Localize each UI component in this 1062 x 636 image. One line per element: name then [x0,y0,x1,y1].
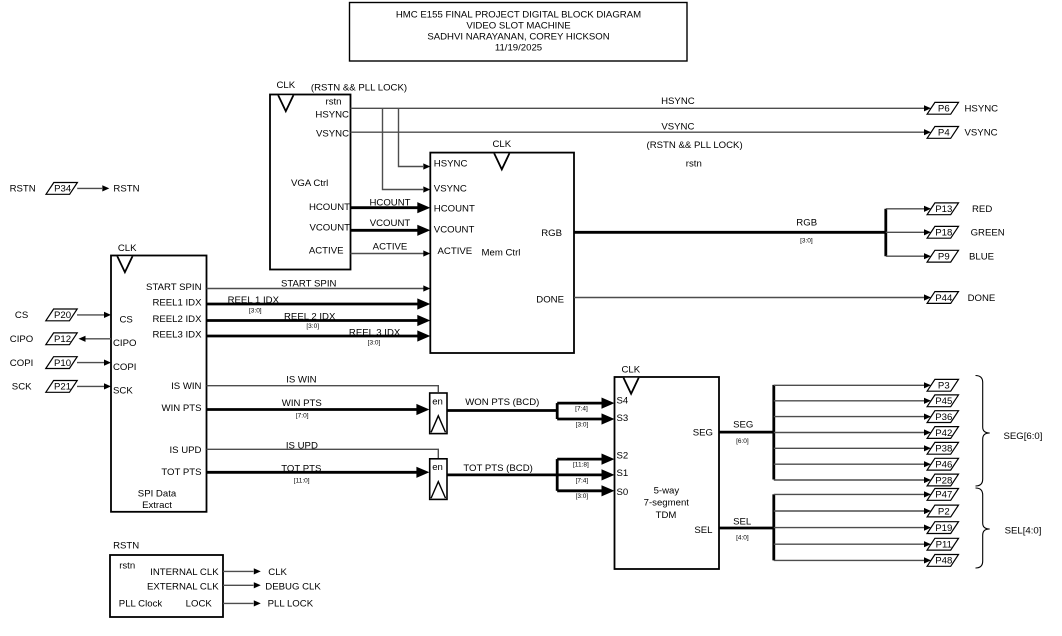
svg-text:en: en [432,396,443,407]
clock wedge VGA Ctrl [278,95,293,111]
block Mem Ctrl [430,153,574,353]
svg-text:SEL: SEL [694,525,713,536]
svg-text:S2: S2 [617,451,629,462]
svg-text:[3:0]: [3:0] [249,307,262,314]
svg-text:PLL LOCK: PLL LOCK [268,599,314,610]
output port P28 [927,474,958,486]
svg-text:P21: P21 [54,382,71,393]
wire SEL bit to P19 [774,527,924,529]
svg-text:P42: P42 [935,428,952,439]
svg-text:CIPO: CIPO [10,334,33,345]
svg-text:[6:0]: [6:0] [736,438,749,445]
svg-text:SEG: SEG [693,427,713,438]
svg-text:SEL: SEL [733,517,752,528]
svg-text:DONE: DONE [536,294,564,305]
brace SEG[6:0] [976,376,990,487]
svg-text:RSTN: RSTN [113,541,139,552]
bus slice [3:0] to S0 [557,489,601,492]
svg-text:VCOUNT: VCOUNT [309,222,350,233]
bus SEG [719,431,774,434]
svg-text:RGB: RGB [796,217,817,228]
output port P13 [927,203,958,215]
clock wedge SPI Data Extract [117,256,132,272]
output port P46 [927,458,958,470]
wire SEG bit to P38 [774,447,924,449]
svg-text:WIN PTS: WIN PTS [162,403,202,414]
bus WIN PTS to en1 [207,408,418,411]
svg-text:SCK: SCK [113,386,133,397]
output port P9 [927,250,958,262]
output port P2 [927,505,958,517]
svg-text:VSYNC: VSYNC [434,183,467,194]
svg-text:HCOUNT: HCOUNT [369,198,410,209]
svg-text:P48: P48 [935,556,952,567]
bus TOT PTS (BCD) [447,473,557,476]
splitter bar TOT PTS [556,459,559,491]
bus slice [11:8] to S2 [557,458,601,461]
svg-text:[3:0]: [3:0] [800,238,813,245]
wire SCK [77,385,104,387]
svg-text:TDM: TDM [656,510,677,521]
svg-text:RGB: RGB [541,228,562,239]
svg-text:RSTN: RSTN [10,184,36,195]
bus TOT PTS to en2 [207,471,418,474]
block SPI Data Extract [111,256,207,512]
wire SEG bit to P42 [774,432,924,434]
svg-text:HSYNC: HSYNC [434,158,468,169]
svg-text:REEL2 IDX: REEL2 IDX [152,314,202,325]
svg-text:START SPIN: START SPIN [146,282,202,293]
bus REEL 2 IDX [207,319,419,322]
svg-text:[3:0]: [3:0] [306,323,319,330]
wire SEG bit to P28 [774,479,924,481]
wire SEG bit to P3 [774,384,924,386]
svg-text:Mem Ctrl: Mem Ctrl [482,247,521,258]
svg-text:CLK: CLK [621,364,640,375]
wire CS [77,314,104,316]
svg-text:P6: P6 [938,104,950,115]
wire BLUE [886,255,924,257]
clock wedge Mem Ctrl [494,153,509,169]
svg-text:P20: P20 [54,310,71,321]
svg-text:SPI Data: SPI Data [138,488,177,499]
svg-text:HMC E155 FINAL PROJECT DIGITAL: HMC E155 FINAL PROJECT DIGITAL BLOCK DIA… [396,9,641,20]
output port P38 [927,442,958,454]
wire DEBUG CLK out [223,584,254,586]
svg-text:ACTIVE: ACTIVE [373,242,408,253]
bus slice [7:4] to S1 [557,473,601,476]
svg-text:[4:0]: [4:0] [736,535,749,542]
svg-text:DONE: DONE [968,293,996,304]
svg-text:TOT PTS (BCD): TOT PTS (BCD) [463,463,532,474]
svg-text:[11:0]: [11:0] [294,478,310,485]
svg-text:rstn: rstn [119,560,135,571]
bus REEL 1 IDX [207,303,419,306]
svg-text:GREEN: GREEN [971,228,1005,239]
block PLL Clock [110,555,223,617]
svg-text:rstn: rstn [326,96,342,107]
svg-text:INTERNAL CLK: INTERNAL CLK [150,567,219,578]
svg-text:P45: P45 [935,396,952,407]
svg-text:HSYNC: HSYNC [661,96,695,107]
bus HCOUNT VGA to Mem [351,206,419,209]
wire VSYNC net [351,131,925,133]
bus VCOUNT VGA to Mem [351,229,419,232]
wire ACTIVE VGA to Mem [351,253,425,255]
svg-text:SEL[4:0]: SEL[4:0] [1005,526,1042,537]
svg-text:[3:0]: [3:0] [576,421,589,428]
svg-text:[7:4]: [7:4] [575,405,588,412]
fanout bar RGB [884,209,887,256]
svg-text:IS UPD: IS UPD [286,441,318,452]
wire CLK out [223,570,254,572]
bus SEL [719,527,774,530]
register en2 [430,459,447,500]
svg-text:SCK: SCK [12,382,32,393]
svg-text:P4: P4 [938,128,950,139]
svg-text:CLK: CLK [492,139,511,150]
output port P48 [927,555,958,567]
svg-text:7-segment: 7-segment [644,498,690,509]
bus REEL 3 IDX [207,335,419,338]
svg-text:COPI: COPI [10,358,33,369]
wire CIPO [85,338,111,340]
wire RSTN from P34 [77,187,102,189]
wire START SPIN [207,288,425,290]
output port P11 [927,538,958,550]
svg-text:P46: P46 [935,460,952,471]
wire VSYNC branch to Mem Ctrl [383,108,424,189]
svg-text:CLK: CLK [276,80,295,91]
svg-text:HCOUNT: HCOUNT [434,203,475,214]
svg-text:P36: P36 [935,412,952,423]
svg-text:TOT PTS: TOT PTS [281,463,321,474]
wire PLL LOCK out [223,602,254,604]
svg-text:REEL 3 IDX: REEL 3 IDX [349,327,401,338]
wire HSYNC branch to Mem Ctrl [399,108,424,166]
fanout bar SEG [772,385,775,480]
svg-text:P38: P38 [935,444,952,455]
clock wedge en2 [431,482,445,499]
svg-text:P3: P3 [938,381,950,392]
svg-text:(RSTN && PLL LOCK): (RSTN && PLL LOCK) [311,82,407,93]
bus WON PTS (BCD) [447,409,557,412]
svg-text:P11: P11 [936,540,952,551]
svg-text:P34: P34 [54,184,72,195]
svg-text:WON PTS (BCD): WON PTS (BCD) [465,397,539,408]
output port P45 [927,395,958,407]
wire DONE [574,297,924,299]
wire HSYNC net [351,107,925,109]
svg-text:VSYNC: VSYNC [661,121,694,132]
splitter bar WON PTS [556,403,559,419]
svg-text:BLUE: BLUE [969,252,994,263]
svg-text:REEL 2 IDX: REEL 2 IDX [284,312,336,323]
svg-text:P12: P12 [54,334,71,345]
wire SEL bit to P47 [774,493,924,495]
svg-text:P9: P9 [938,252,950,263]
wire SEL bit to P48 [774,559,924,561]
block 5-way 7-segment TDM [615,377,720,569]
svg-text:VGA Ctrl: VGA Ctrl [291,178,328,189]
svg-text:WIN PTS: WIN PTS [282,398,322,409]
clock wedge TDM [624,378,639,394]
wire GREEN [886,231,924,233]
svg-text:VIDEO SLOT MACHINE: VIDEO SLOT MACHINE [466,20,570,31]
wire SEL bit to P2 [774,510,924,512]
fanout bar SEL [772,494,775,560]
svg-text:RSTN: RSTN [113,184,139,195]
svg-text:S0: S0 [617,487,629,498]
svg-text:ACTIVE: ACTIVE [309,245,344,256]
svg-text:rstn: rstn [686,158,702,169]
svg-text:11/19/2025: 11/19/2025 [495,42,542,53]
svg-text:CIPO: CIPO [113,338,136,349]
svg-text:HCOUNT: HCOUNT [309,202,350,213]
svg-text:P19: P19 [935,523,952,534]
svg-text:DEBUG CLK: DEBUG CLK [265,581,321,592]
svg-text:REEL1 IDX: REEL1 IDX [152,298,202,309]
svg-text:SADHVI NARAYANAN, COREY HICKSO: SADHVI NARAYANAN, COREY HICKSON [427,31,609,42]
svg-text:[7:0]: [7:0] [296,413,309,420]
output port P19 [927,522,958,534]
svg-text:EXTERNAL CLK: EXTERNAL CLK [147,581,219,592]
output port P18 [927,226,958,238]
svg-text:IS WIN: IS WIN [171,381,201,392]
svg-text:CLK: CLK [118,243,137,254]
output port P6 HSYNC [927,102,958,114]
output port P47 [927,489,958,501]
svg-text:TOT PTS: TOT PTS [161,467,201,478]
bus RGB [574,231,886,234]
svg-text:P13: P13 [935,204,952,215]
svg-text:PLL Clock: PLL Clock [119,599,163,610]
svg-text:SEG[6:0]: SEG[6:0] [1004,431,1043,442]
output port P3 [927,379,958,391]
svg-text:S4: S4 [617,396,629,407]
svg-text:IS WIN: IS WIN [286,374,316,385]
svg-text:CS: CS [15,310,28,321]
svg-text:REEL 1 IDX: REEL 1 IDX [228,295,280,306]
svg-text:SEG: SEG [733,420,753,431]
wire SEG bit to P36 [774,416,924,418]
svg-text:en: en [432,462,443,473]
svg-text:LOCK: LOCK [186,599,213,610]
wire COPI [77,362,104,364]
svg-text:ACTIVE: ACTIVE [438,246,473,257]
wire RED [886,208,924,210]
svg-text:P47: P47 [935,490,952,501]
output port P4 VSYNC [927,127,958,139]
svg-text:P44: P44 [935,293,953,304]
svg-text:IS UPD: IS UPD [170,445,202,456]
svg-text:COPI: COPI [113,362,136,373]
svg-text:[11:8]: [11:8] [573,461,589,468]
svg-text:S3: S3 [617,413,629,424]
svg-text:RED: RED [972,204,992,215]
svg-text:VSYNC: VSYNC [965,128,998,139]
bus slice [7:4] to S4 [557,402,601,405]
svg-text:VCOUNT: VCOUNT [370,218,411,229]
wire IS UPD to en2 enable [207,449,439,458]
svg-text:P18: P18 [935,228,952,239]
svg-text:P28: P28 [935,475,952,486]
svg-text:P10: P10 [54,358,71,369]
output port P36 [927,411,958,423]
svg-text:START SPIN: START SPIN [281,278,337,289]
svg-text:[3:0]: [3:0] [576,493,589,500]
output port P42 [927,427,958,439]
brace SEL[4:0] [976,488,990,568]
svg-text:S1: S1 [617,468,629,479]
svg-text:REEL3 IDX: REEL3 IDX [152,330,202,341]
wire SEG bit to P46 [774,463,924,465]
svg-text:[3:0]: [3:0] [368,339,381,346]
svg-text:5-way: 5-way [654,485,680,496]
svg-text:CLK: CLK [268,567,287,578]
wire IS WIN to en1 enable [207,386,439,392]
svg-text:P2: P2 [938,506,950,517]
clock wedge en1 [431,416,445,433]
svg-text:[7:4]: [7:4] [576,477,589,484]
title box [350,3,688,62]
svg-text:(RSTN && PLL LOCK): (RSTN && PLL LOCK) [647,140,743,151]
wire SEG bit to P45 [774,400,924,402]
wire SEL bit to P11 [774,543,924,545]
svg-text:Extract: Extract [142,500,172,511]
register en1 [430,393,447,434]
svg-text:VCOUNT: VCOUNT [434,224,475,235]
svg-text:HSYNC: HSYNC [965,104,999,115]
svg-text:HSYNC: HSYNC [315,110,349,121]
svg-text:VSYNC: VSYNC [316,128,349,139]
output port P44 [927,292,958,304]
svg-text:CS: CS [120,314,133,325]
bus slice [3:0] to S3 [557,418,601,421]
block VGA Ctrl [270,95,351,270]
